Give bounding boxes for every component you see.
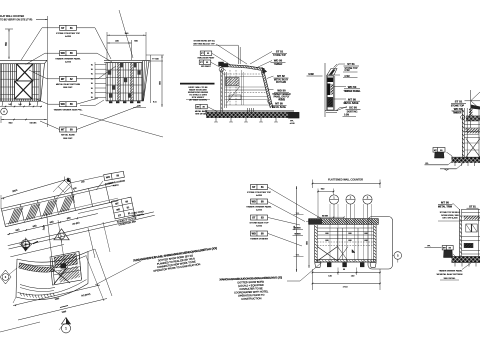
svg-text:S-910: S-910 [256, 226, 263, 228]
svg-text:1710: 1710 [343, 287, 349, 289]
svg-text:WD 50: WD 50 [348, 85, 357, 89]
svg-text:TIMBER VENEER PANEL: TIMBER VENEER PANEL [246, 206, 272, 209]
svg-text:9L: 9L [91, 78, 93, 80]
svg-text:+0.00: +0.00 [289, 123, 295, 125]
svg-text:METAL INLAY PATTERN: METAL INLAY PATTERN [56, 83, 81, 86]
svg-text:TO BE VERIFY ON SITE (TYP): TO BE VERIFY ON SITE (TYP) [0, 20, 32, 22]
svg-text:9L: 9L [91, 88, 93, 90]
svg-text:SC 50: SC 50 [349, 106, 357, 110]
svg-text:TIMBER VENEER SIDE PNL.: TIMBER VENEER SIDE PNL. [53, 109, 82, 111]
svg-text:600: 600 [348, 233, 351, 235]
svg-text:A-915: A-915 [256, 209, 263, 212]
svg-text:STONE COUNTER TOP: STONE COUNTER TOP [247, 192, 271, 194]
svg-text:STONE TOP: STONE TOP [273, 55, 286, 57]
svg-text:WD PAINT: WD PAINT [201, 65, 211, 68]
svg-text:TY 500: TY 500 [152, 59, 160, 61]
svg-text:FFL: FFL [427, 246, 430, 248]
svg-text:WD: WD [252, 201, 256, 204]
svg-text:MT 50: MT 50 [348, 97, 356, 101]
svg-text:EMULSION PAINT: EMULSION PAINT [198, 56, 216, 59]
svg-text:METAL TRIM: METAL TRIM [438, 206, 452, 209]
svg-text:MT: MT [61, 78, 65, 81]
svg-text:FFL: FFL [425, 163, 428, 165]
svg-text:9L: 9L [91, 74, 93, 76]
svg-text:SEE DET.: SEE DET. [63, 87, 73, 89]
svg-text:TIMBER: TIMBER [274, 64, 283, 66]
svg-text:MT 52: MT 52 [277, 74, 285, 78]
svg-text:90 MIN: 90 MIN [322, 216, 329, 218]
svg-text:METAL INLAY: METAL INLAY [274, 78, 289, 81]
svg-text:ST 51: ST 51 [276, 50, 284, 54]
svg-text:ST: ST [252, 186, 256, 189]
svg-text:600: 600 [364, 233, 367, 235]
svg-text:(BY MAIN CONTR): (BY MAIN CONTR) [189, 99, 207, 102]
svg-text:SKIRTING: SKIRTING [347, 112, 358, 114]
svg-text:9L: 9L [91, 93, 93, 95]
svg-text:DET. SHT A-920: DET. SHT A-920 [443, 216, 459, 219]
svg-text:WD 50: WD 50 [274, 59, 283, 63]
svg-text:TIMBER: TIMBER [453, 113, 462, 115]
svg-text:STONE BASE TOP: STONE BASE TOP [250, 222, 270, 225]
svg-text:WD: WD [61, 52, 65, 55]
svg-text:WD 50: WD 50 [277, 89, 286, 93]
svg-text:TIMBER PANEL: TIMBER PANEL [343, 90, 361, 93]
svg-text:W/ METAL INLAY PATTERN: W/ METAL INLAY PATTERN [437, 273, 463, 276]
svg-text:PANEL ON PLY: PANEL ON PLY [274, 96, 290, 99]
svg-text:B.O.: B.O. [153, 102, 157, 104]
svg-text:50/185: 50/185 [30, 123, 37, 125]
svg-text:PATTERN: PATTERN [276, 81, 287, 84]
svg-text:SEE DETAIL: SEE DETAIL [444, 277, 457, 280]
svg-text:600: 600 [348, 240, 351, 242]
svg-text:WD 50: WD 50 [454, 107, 463, 111]
svg-text:600: 600 [325, 233, 328, 235]
svg-text:1: 1 [65, 327, 67, 331]
svg-text:600: 600 [325, 240, 328, 242]
svg-text:A-915: A-915 [65, 61, 72, 64]
svg-text:METAL BASE: METAL BASE [272, 106, 286, 109]
svg-text:METAL BASE: METAL BASE [61, 134, 75, 137]
svg-text:9L: 9L [91, 69, 93, 71]
svg-text:TIMBER VENEER: TIMBER VENEER [250, 239, 268, 241]
svg-text:TIMBER VENEER PANEL: TIMBER VENEER PANEL [439, 269, 464, 272]
svg-text:SEE DETAIL: SEE DETAIL [195, 112, 207, 115]
svg-text:90: 90 [343, 269, 345, 271]
svg-text:9L: 9L [91, 97, 93, 99]
svg-text:600: 600 [364, 240, 367, 242]
svg-text:FLAT WALL COUNTER: FLAT WALL COUNTER [0, 15, 24, 18]
svg-text:ST: ST [252, 217, 256, 220]
svg-text:ST 51: ST 51 [455, 100, 463, 104]
svg-text:A-920: A-920 [256, 194, 263, 197]
svg-text:WD: WD [252, 233, 256, 236]
svg-text:STONE COUNTER TOP: STONE COUNTER TOP [56, 33, 80, 35]
svg-text:ST 51: ST 51 [347, 62, 355, 66]
svg-text:WD: WD [61, 103, 65, 106]
svg-text:A-920: A-920 [65, 35, 72, 38]
svg-text:FLATTENED WALL COUNTER: FLATTENED WALL COUNTER [328, 179, 363, 182]
svg-text:9L: 9L [91, 64, 93, 66]
svg-text:SEE DET.: SEE DET. [63, 138, 73, 140]
svg-text:MT 50: MT 50 [441, 201, 449, 205]
svg-text:9L: 9L [91, 83, 93, 85]
svg-text:STONE BORD (BY ID): STONE BORD (BY ID) [193, 41, 214, 43]
svg-text:ST: ST [61, 27, 65, 30]
svg-text:TIMBER VENEER PANEL: TIMBER VENEER PANEL [55, 57, 81, 60]
svg-text:ST 51: ST 51 [469, 205, 476, 208]
svg-text:MT: MT [61, 129, 65, 132]
svg-text:MT 50: MT 50 [275, 102, 283, 106]
